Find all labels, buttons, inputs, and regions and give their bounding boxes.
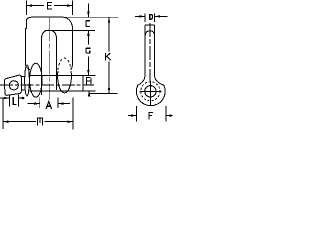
label A: [46, 102, 51, 109]
pin neck top: [21, 76, 25, 78]
dim C upper arrow: [87, 3, 89, 17]
right lug (eye) lower outline: [58, 71, 72, 93]
extension line at slot top: [45, 29, 95, 31]
dim A extension lines: [40, 98, 58, 109]
screw pin shank bottom edge: [30, 90, 96, 92]
label L: [13, 98, 16, 105]
dim K line lower arrow: [108, 62, 110, 94]
pin head hole circle: [9, 81, 18, 90]
label D: [150, 14, 153, 19]
front view: bow inner slot: [42, 30, 57, 95]
dim A arrows: [28, 103, 70, 105]
pin head eye outline: [5, 75, 22, 95]
left leg to lug fillet: [25, 64, 30, 70]
side view: inner-top dome arc: [145, 31, 154, 36]
dim M extension lines: [3, 98, 73, 130]
right leg to lug fillet: [71, 64, 73, 70]
side view pin hole circle: [145, 86, 156, 97]
extension line at lug bottom for K: [90, 92, 118, 94]
left lug (eye): [30, 63, 42, 97]
dim M line with arrows: [3, 121, 73, 123]
side view lug bottom arc: [136, 85, 165, 105]
front view: shackle bow outer profile: [25, 17, 72, 63]
label F: [149, 113, 152, 120]
label C: [86, 21, 90, 27]
dim F arrows: [128, 115, 172, 117]
dim D extension lines: [145, 14, 155, 22]
label K: [106, 53, 111, 60]
dim L arrows: [0, 97, 25, 99]
vertical centerline: [48, 17, 50, 100]
pin end cap: [82, 76, 84, 91]
crosshair horizontal: [139, 90, 161, 92]
side view: strip top edge: [145, 24, 155, 26]
dim G lower arrow (points down to pin top): [87, 57, 89, 76]
dim K line upper arrow: [108, 17, 110, 51]
crosshair vertical: [149, 81, 151, 105]
dim G upper arrow (points up to slot-top line): [87, 30, 89, 44]
dim D arrows: [135, 15, 167, 17]
label G: [86, 48, 90, 53]
label B: [86, 78, 91, 85]
screw pin shank top edge: [30, 75, 96, 77]
side view left flare into lug: [138, 75, 145, 85]
label M: [38, 118, 43, 125]
dim E line with arrows: [26, 5, 72, 7]
dim B lower arrow (points up to pin bottom): [88, 91, 90, 97]
pin horizontal centerline: [0, 84, 94, 86]
side view: bow strip right edge: [154, 25, 156, 75]
dim L extension lines: [9, 95, 18, 107]
pin neck bottom: [21, 89, 25, 91]
side view centerline: [149, 23, 151, 81]
pin collar ellipse: [25, 65, 30, 96]
right lug hidden top arc: [58, 58, 71, 70]
label E: [48, 2, 52, 9]
side view: bow strip left edge: [144, 25, 146, 75]
dim E extension line left: [25, 1, 27, 16]
side view right flare into lug: [155, 75, 164, 85]
dim E extension line right: [72, 1, 74, 16]
dim F extension lines: [137, 106, 166, 121]
extension line at bow top: [58, 16, 119, 18]
side view boss circle (hidden): [141, 82, 160, 101]
